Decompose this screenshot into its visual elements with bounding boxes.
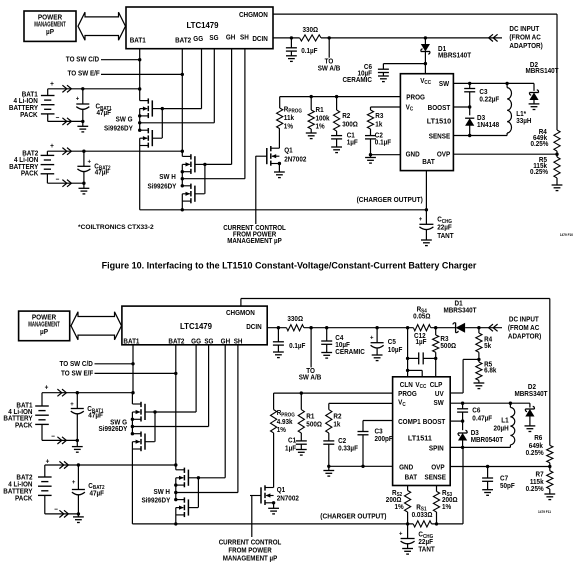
svg-text:OVP: OVP — [437, 151, 451, 158]
capacitor CBAT1 47uF (bottom) — [70, 393, 104, 441]
svg-text:MBRS140T: MBRS140T — [525, 68, 558, 75]
wire GG connection (top) — [162, 108, 201, 110]
svg-text:R7: R7 — [536, 471, 544, 478]
svg-text:(FROM AC: (FROM AC — [509, 34, 541, 41]
svg-text:C3: C3 — [479, 89, 487, 96]
label TO SW E/F (bottom) — [61, 370, 93, 377]
svg-text:LTC1479: LTC1479 — [180, 322, 213, 331]
connector chevrons BAT2 + (bottom) — [59, 461, 68, 468]
svg-text:SG: SG — [209, 35, 218, 42]
wire TO SW E/F (bottom) — [95, 372, 176, 374]
svg-text:Si9926DY: Si9926DY — [141, 497, 170, 504]
wire GH column (bottom) — [224, 345, 226, 478]
svg-text:47µF: 47µF — [95, 169, 110, 176]
svg-text:0.033Ω: 0.033Ω — [412, 512, 434, 519]
svg-text:300Ω: 300Ω — [342, 121, 358, 128]
label CHARGER OUTPUT (bottom) — [320, 513, 386, 520]
svg-text:DC INPUT: DC INPUT — [509, 316, 539, 323]
svg-text:+: + — [87, 158, 91, 165]
svg-text:ADAPTOR): ADAPTOR) — [509, 43, 542, 50]
svg-text:1479 F10: 1479 F10 — [560, 233, 573, 237]
diode D1 MBRS140T (top) — [421, 38, 471, 64]
svg-text:SW A/B: SW A/B — [318, 65, 341, 72]
svg-text:TO SW C/D: TO SW C/D — [60, 361, 94, 368]
capacitor C2 0.33uF (bottom) — [323, 433, 358, 466]
wire BAT2 - rail (top) — [47, 182, 85, 185]
svg-text:20µH: 20µH — [493, 425, 508, 432]
ground R5 (bottom) — [474, 383, 485, 389]
svg-text:D2: D2 — [528, 384, 536, 391]
svg-text:GH: GH — [226, 34, 236, 41]
svg-text:+: + — [50, 143, 54, 150]
svg-text:BAT: BAT — [405, 474, 418, 481]
svg-text:+: + — [45, 384, 49, 391]
diode D3 1N4148 (top) — [465, 107, 499, 136]
svg-text:1%: 1% — [284, 123, 293, 130]
svg-text:+: + — [399, 530, 403, 537]
svg-text:649k: 649k — [529, 443, 543, 450]
svg-text:1479 F11: 1479 F11 — [538, 510, 551, 514]
svg-text:0.33µF: 0.33µF — [338, 445, 358, 452]
svg-text:6.8k: 6.8k — [484, 367, 497, 374]
resistor R3 1k (top) — [367, 107, 383, 129]
svg-text:SW H: SW H — [153, 489, 170, 496]
svg-text:LT1510: LT1510 — [427, 116, 451, 125]
connector chevrons BAT2 - (bottom) — [59, 510, 68, 517]
connector chevrons BAT2 + (top) — [62, 148, 71, 155]
svg-text:CURRENT CONTROL: CURRENT CONTROL — [219, 539, 282, 546]
svg-text:PACK: PACK — [15, 422, 33, 429]
label BAT1 pack (bottom) — [3, 402, 33, 429]
ground Q1 (top) — [274, 172, 285, 178]
svg-text:DCIN: DCIN — [246, 324, 262, 331]
svg-text:5k: 5k — [484, 343, 491, 350]
svg-text:0.1µF: 0.1µF — [301, 48, 317, 55]
capacitor C2 0.1uF (top) — [365, 129, 391, 155]
wire SW H bus segments (top) — [181, 151, 184, 211]
svg-text:+: + — [370, 334, 374, 341]
svg-text:Si9926DY: Si9926DY — [148, 183, 177, 190]
transistor SW G upper FET (bottom) — [132, 402, 154, 422]
wire GG connection (bottom) — [155, 411, 196, 413]
svg-text:22µF: 22µF — [418, 539, 433, 546]
capacitor CBAT1 47uF (top) — [76, 89, 112, 122]
inductor L1 33uH (top) — [507, 83, 532, 135]
svg-text:R2: R2 — [342, 113, 350, 120]
label SW H (top) — [148, 174, 177, 191]
svg-text:10µF: 10µF — [388, 347, 403, 354]
svg-text:1µF: 1µF — [347, 139, 358, 146]
svg-text:Q1: Q1 — [284, 147, 293, 154]
svg-text:10µF: 10µF — [335, 342, 350, 349]
svg-text:GG: GG — [193, 36, 203, 43]
ground GND pin (bottom) — [323, 466, 334, 476]
capacitor 0.1uF (top) — [286, 38, 318, 56]
resistor RS1 0.033 ohm (bottom) — [412, 504, 434, 527]
svg-text:0.25%: 0.25% — [526, 450, 544, 457]
svg-text:Figure 10. Interfacing to the: Figure 10. Interfacing to the LT1510 Con… — [102, 260, 477, 270]
svg-text:0.47µF: 0.47µF — [472, 415, 492, 422]
resistor R5 6.8k (bottom) — [476, 359, 497, 383]
wire VC line (bottom) — [329, 402, 393, 404]
svg-text:CERAMIC: CERAMIC — [342, 77, 372, 84]
resistor R7 115k (bottom) — [526, 467, 553, 495]
transistor SW H lower FET (bottom) — [176, 497, 198, 517]
IC LT1511 box — [393, 377, 451, 486]
wire charger output rail (bottom) — [132, 447, 463, 525]
svg-text:SENSE: SENSE — [429, 133, 451, 140]
svg-text:POWER: POWER — [38, 14, 62, 21]
resistor R4 649k (top) — [530, 129, 560, 154]
wire BAT2 + rail (bottom) — [45, 463, 176, 466]
transistor SW H upper FET (top) — [182, 154, 204, 174]
node BAT1 pin column (top) — [138, 49, 141, 91]
wire BAT1 + rail (bottom) — [42, 391, 133, 394]
svg-text:+: + — [50, 81, 54, 88]
resistor R2 1k (bottom) — [326, 403, 342, 433]
label CURRENT CONTROL (top) — [223, 225, 286, 246]
svg-text:0.1µF: 0.1µF — [289, 343, 305, 350]
wire TO SW A/B stub (bottom) — [299, 328, 322, 382]
IC LTC1479 box (bottom) — [122, 306, 267, 345]
svg-text:FROM POWER: FROM POWER — [228, 547, 272, 554]
svg-text:4.93k: 4.93k — [277, 419, 293, 426]
label DC INPUT (top) — [509, 26, 542, 50]
svg-text:UV: UV — [435, 391, 444, 398]
power management uP box (bottom) — [19, 311, 70, 341]
svg-text:1%: 1% — [442, 504, 451, 511]
svg-text:R2: R2 — [333, 413, 341, 420]
wire GND line (bottom) — [327, 465, 393, 468]
wire GH column (top) — [231, 49, 233, 165]
svg-text:SPIN: SPIN — [429, 445, 444, 452]
wire charger output rail (top) — [140, 208, 428, 211]
svg-text:C3: C3 — [375, 428, 383, 435]
ground Q1 (bottom) — [268, 508, 279, 514]
svg-text:−: − — [56, 176, 60, 183]
svg-text:DCIN: DCIN — [252, 36, 268, 43]
svg-text:PROG: PROG — [398, 391, 417, 398]
label SW H (bottom) — [141, 489, 170, 505]
resistor R1 500 ohm (bottom) — [298, 393, 322, 441]
svg-text:(CHARGER OUTPUT): (CHARGER OUTPUT) — [320, 513, 386, 520]
connector chevrons BAT1 + (bottom) — [57, 389, 66, 396]
resistor R6 649k (bottom) — [526, 435, 553, 467]
power management uP box (top) — [24, 11, 76, 41]
bidirectional bus arrow (top) — [78, 12, 126, 40]
wire TO SW E/F (top) — [101, 73, 182, 75]
svg-text:+: + — [76, 95, 80, 102]
svg-text:1N4148: 1N4148 — [477, 122, 499, 129]
ground 0.1uF (top) — [286, 56, 297, 62]
svg-text:0.25%: 0.25% — [530, 141, 548, 148]
svg-text:PACK: PACK — [21, 170, 39, 177]
resistor RPROG 4.93k (bottom) — [271, 393, 296, 434]
ground C6 (top) — [378, 76, 389, 82]
svg-text:100k: 100k — [316, 115, 330, 122]
capacitor C4 10uF ceramic (bottom) — [321, 328, 365, 356]
svg-text:µP: µP — [40, 329, 48, 336]
capacitor C1 1uF (bottom) — [285, 437, 307, 452]
svg-text:L1: L1 — [501, 417, 509, 424]
caption figure 10 — [102, 260, 477, 270]
inductor L1 20uH (bottom) — [493, 403, 514, 447]
wire BAT2 + rail (top) — [47, 150, 182, 153]
wire SH column (top) — [244, 49, 246, 179]
resistor 330 ohm (bottom) — [287, 316, 304, 331]
svg-text:*COILTRONICS CTX33-2: *COILTRONICS CTX33-2 — [78, 224, 154, 231]
svg-text:1µF: 1µF — [416, 339, 427, 346]
capacitor CCHG 22uF (bottom) — [399, 524, 435, 554]
svg-text:LTC1479: LTC1479 — [186, 21, 219, 30]
svg-text:TO SW C/D: TO SW C/D — [66, 56, 100, 63]
capacitor C1 1uF (top) — [331, 131, 358, 147]
wire SH connection (bottom) — [176, 492, 238, 494]
svg-text:1%: 1% — [316, 123, 325, 130]
ground GND pin (top) — [365, 155, 376, 163]
resistor R2 300 ohm (top) — [334, 97, 359, 131]
wire VCC pin (top) — [424, 64, 426, 74]
ground CCHG (bottom) — [402, 549, 413, 555]
ground C4 (bottom) — [321, 353, 332, 359]
svg-text:330Ω: 330Ω — [287, 316, 303, 323]
svg-text:MBRS140T: MBRS140T — [438, 52, 471, 59]
svg-text:C1: C1 — [288, 437, 296, 444]
wire BAT1 - rail (top) — [48, 120, 85, 123]
svg-text:ADAPTOR): ADAPTOR) — [508, 333, 541, 340]
wire SW line (bottom) — [450, 402, 530, 405]
svg-text:CERAMIC: CERAMIC — [335, 349, 365, 356]
svg-text:BOOST: BOOST — [423, 419, 446, 426]
resistor R1 100k (top) — [308, 97, 330, 133]
svg-text:TO SW E/F: TO SW E/F — [61, 370, 93, 377]
wire SW G bus segments (bottom) — [131, 393, 134, 524]
bidirectional bus arrow (bottom) — [71, 312, 122, 340]
connector chevrons DC input (bottom) — [489, 324, 498, 331]
transistor SW G lower FET (top) — [140, 128, 162, 148]
label TO SW C/D (top) — [66, 56, 100, 63]
wire BAT1 - rail (bottom) — [42, 439, 79, 442]
svg-text:CHGMON: CHGMON — [226, 310, 255, 317]
svg-text:TANT: TANT — [418, 546, 434, 553]
label BAT2 pack (bottom) — [3, 474, 33, 502]
ground R7 (bottom) — [544, 494, 555, 500]
wire VC line (top) — [371, 106, 401, 108]
label TO SW C/D (bottom) — [60, 361, 94, 368]
transistor SW H upper FET (bottom) — [176, 468, 198, 488]
svg-text:GH: GH — [221, 338, 231, 345]
wire DCIN rail (top) — [273, 36, 502, 39]
resistor RPROG 11k (top) — [277, 97, 303, 131]
svg-text:SG: SG — [204, 338, 213, 345]
battery BAT2 (bottom) — [38, 458, 58, 514]
node BAT2 pin column (top) — [181, 49, 184, 153]
svg-text:1µF: 1µF — [285, 445, 296, 452]
svg-text:0.05Ω: 0.05Ω — [413, 313, 431, 320]
svg-text:0.25%: 0.25% — [526, 486, 544, 493]
resistor R3 500 ohm (bottom) — [433, 328, 457, 377]
fig ref 1479 F11 — [538, 510, 551, 514]
wire CHGMON (top) — [273, 14, 557, 130]
wire SG connection (bottom) — [132, 426, 208, 428]
svg-text:CLP: CLP — [430, 382, 443, 389]
svg-text:MANAGEMENT µP: MANAGEMENT µP — [223, 555, 278, 562]
battery BAT2 (top) — [41, 143, 60, 184]
ground BAT2 (bottom) — [73, 514, 84, 523]
note COILTRONICS — [78, 224, 154, 231]
svg-text:R6: R6 — [534, 435, 542, 442]
wire GH connection (bottom) — [198, 477, 225, 479]
ground C1 (bottom) — [296, 450, 307, 456]
svg-text:Q1: Q1 — [277, 487, 286, 494]
svg-text:1k: 1k — [333, 421, 340, 428]
wire SH connection (top) — [182, 178, 245, 180]
svg-text:L1*: L1* — [516, 111, 526, 118]
diode D2 MBRS340T (bottom) — [514, 384, 547, 426]
wire GG column (top) — [201, 49, 203, 109]
svg-text:MBRS340T: MBRS340T — [443, 307, 476, 314]
capacitor C5 10uF (bottom) — [370, 328, 402, 355]
diode D3 MBR0540T (bottom) — [458, 421, 503, 447]
capacitor 0.1uF (bottom) — [273, 328, 306, 352]
svg-text:2N7002: 2N7002 — [277, 495, 299, 502]
capacitor CBAT2 47uF (top) — [77, 151, 110, 183]
svg-text:OVP: OVP — [431, 464, 445, 471]
wire OVP line (bottom) — [450, 465, 551, 468]
node BAT2 pin column (bottom) — [174, 345, 177, 467]
ground BAT1 (bottom) — [72, 440, 83, 452]
ground BAT1 (top) — [77, 121, 88, 131]
wire SW G gate bus (bottom) — [153, 410, 156, 441]
wire SG column (bottom) — [208, 345, 210, 427]
svg-text:C2: C2 — [338, 438, 346, 445]
svg-text:Si9926DY: Si9926DY — [99, 426, 128, 433]
label CHARGER OUTPUT (top) — [357, 197, 423, 204]
svg-text:SENSE: SENSE — [425, 474, 447, 481]
ground R1 (top) — [306, 133, 317, 139]
resistor 330 ohm (top) — [300, 27, 321, 41]
label DC INPUT (bottom) — [508, 316, 541, 340]
svg-text:BAT1: BAT1 — [123, 338, 139, 345]
svg-text:SW: SW — [433, 400, 444, 407]
wire Q1 gate to current control (top) — [255, 156, 257, 224]
svg-text:SW A/B: SW A/B — [299, 374, 322, 381]
wire SW H gate bus (top) — [203, 163, 206, 194]
svg-text:SW: SW — [439, 81, 450, 88]
connector chevrons BAT1 - (bottom) — [57, 437, 66, 444]
label TO SW E/F (top) — [68, 70, 100, 77]
svg-text:1k: 1k — [375, 121, 382, 128]
diode D1 MBRS340T (bottom) — [443, 300, 476, 333]
connector chevrons BAT2 - (top) — [62, 180, 71, 187]
svg-text:500Ω: 500Ω — [306, 421, 322, 428]
svg-text:BAT2: BAT2 — [168, 338, 184, 345]
transistor Q1 2N7002 (top) — [256, 129, 307, 172]
resistor R4 5k (bottom) — [476, 328, 493, 361]
svg-text:SH: SH — [234, 338, 243, 345]
svg-text:MBR0540T: MBR0540T — [471, 437, 503, 444]
svg-text:BAT: BAT — [422, 159, 435, 166]
label BAT2 pack (top) — [9, 150, 39, 177]
svg-text:1%: 1% — [277, 427, 286, 434]
wire SG connection (top) — [140, 122, 215, 124]
svg-text:33µH: 33µH — [516, 118, 531, 125]
label CURRENT CONTROL (bottom) — [219, 539, 282, 562]
wire VCC-CLN column (bottom) — [406, 328, 409, 377]
wire TO SW C/D (bottom) — [95, 363, 134, 365]
svg-text:+: + — [70, 401, 74, 408]
svg-text:Si9926DY: Si9926DY — [104, 125, 133, 132]
svg-text:330Ω: 330Ω — [302, 27, 318, 34]
svg-text:GG: GG — [191, 338, 201, 345]
svg-text:1%: 1% — [395, 504, 404, 511]
wire BOOST line (bottom) — [450, 419, 464, 422]
IC LTC1479 box (top) — [126, 7, 273, 49]
wire SENSE line (top) — [453, 134, 507, 137]
IC LT1510 box — [400, 74, 453, 171]
svg-text:D1: D1 — [455, 300, 463, 307]
ground D2 (top) — [529, 104, 540, 110]
svg-text:PACK: PACK — [15, 495, 33, 502]
fig ref 1479 F10 — [560, 233, 573, 237]
wire BOOST line (top) — [453, 105, 471, 108]
label SW G (bottom) — [99, 419, 128, 433]
wire UV connection (bottom) — [450, 359, 479, 393]
wire TO SW C/D (top) — [101, 59, 140, 61]
label SW G (top) — [104, 116, 133, 132]
wire GG column (bottom) — [195, 345, 197, 412]
svg-text:CLN: CLN — [400, 382, 413, 389]
resistor R5 115k (top) — [530, 154, 560, 185]
ground CCHG (top) — [421, 240, 432, 246]
battery BAT1 (bottom) — [35, 384, 55, 440]
svg-text:CHGMON: CHGMON — [239, 12, 268, 19]
svg-text:MBRS340T: MBRS340T — [514, 391, 547, 398]
svg-text:47µF: 47µF — [90, 490, 105, 497]
wire SW H bus segments (bottom) — [174, 465, 177, 526]
wire SW G bus segments (top) — [138, 89, 141, 210]
wire Q1 gate to current control (bottom) — [251, 495, 253, 537]
svg-text:C5: C5 — [388, 339, 396, 346]
wire COMP1 line (bottom) — [363, 420, 393, 422]
svg-text:µP: µP — [46, 29, 54, 36]
ground C5 (bottom) — [372, 355, 383, 361]
svg-text:C6: C6 — [472, 407, 480, 414]
svg-text:COMP1: COMP1 — [398, 419, 421, 426]
svg-text:500Ω: 500Ω — [440, 343, 456, 350]
ground C1 (top) — [331, 147, 342, 153]
capacitor C6 0.47uF (bottom) — [457, 403, 492, 422]
svg-text:BAT2: BAT2 — [175, 37, 191, 44]
svg-text:LT1511: LT1511 — [408, 433, 432, 442]
svg-text:0.25%: 0.25% — [530, 169, 548, 176]
svg-text:TO SW E/F: TO SW E/F — [68, 70, 100, 77]
svg-text:BOOST: BOOST — [428, 105, 451, 112]
svg-text:+: + — [419, 216, 423, 223]
svg-text:POWER: POWER — [32, 314, 56, 321]
svg-text:−: − — [54, 506, 58, 513]
svg-text:R1: R1 — [316, 107, 324, 114]
svg-text:0.1µF: 0.1µF — [375, 139, 391, 146]
svg-text:BAT1: BAT1 — [130, 37, 146, 44]
ground BAT2 (top) — [79, 183, 90, 194]
svg-text:DC INPUT: DC INPUT — [509, 26, 539, 33]
wire SH column (bottom) — [237, 345, 239, 493]
wire OVP line (top) — [453, 153, 558, 156]
wire VCC pin jog (bottom) — [408, 370, 423, 376]
battery BAT1 (top) — [41, 81, 59, 122]
svg-text:50pF: 50pF — [500, 483, 515, 490]
